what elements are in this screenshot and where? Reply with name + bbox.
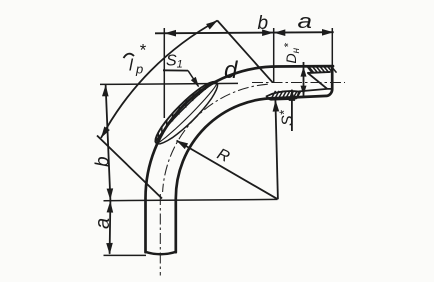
bend end boundary line bbox=[217, 21, 272, 83]
extension line at bend start level bbox=[104, 199, 278, 200]
arrow b top right bbox=[262, 29, 274, 36]
extension line at pipe right end bbox=[331, 28, 333, 66]
bottom wall section hatching bbox=[271, 91, 301, 99]
arrow a left bottom bbox=[106, 243, 113, 255]
S* dimension line below wall bbox=[291, 90, 293, 131]
svg-text:a: a bbox=[298, 11, 313, 33]
arrow Dn bottom bbox=[301, 86, 307, 96]
left dimension line bbox=[106, 85, 111, 254]
arrow Dn top bbox=[301, 67, 307, 77]
centerline of horizontal pipe bbox=[252, 82, 345, 84]
pipe elbow outer contour (outer bend arc, left wall, top edge) bbox=[146, 66, 334, 252]
section S1 crescent hatching bbox=[155, 82, 215, 143]
S1 leader bbox=[188, 71, 199, 87]
arrow S1 bbox=[191, 77, 199, 87]
bend centerline arc bbox=[163, 84, 268, 192]
arrow b top left bbox=[165, 30, 177, 37]
svg-text:d: d bbox=[224, 57, 238, 84]
R dimension line bbox=[177, 141, 278, 200]
extension line at pipe bottom end bbox=[104, 254, 147, 256]
arrow R bbox=[177, 141, 189, 150]
section S1 lens outer edge bbox=[155, 82, 217, 144]
pipe bottom end face bbox=[145, 252, 176, 254]
svg-text:b: b bbox=[258, 13, 269, 34]
arrow at lower end of lp arc bbox=[101, 127, 110, 139]
arrow a left top bbox=[107, 201, 114, 213]
arrow at upper end of lp arc bbox=[206, 21, 217, 30]
extension line at bend end bbox=[273, 28, 275, 82]
radius corner vertical line bbox=[275, 100, 278, 199]
Dn dimension line bbox=[303, 62, 305, 96]
arc-length dimension arc for lp bbox=[101, 21, 218, 139]
top wall section hatching bbox=[309, 66, 337, 72]
svg-text:p: p bbox=[135, 62, 143, 77]
extension line from vertical pipe axis bbox=[163, 28, 165, 118]
arrow b left bottom bbox=[107, 188, 114, 200]
arrow a top right bbox=[322, 29, 334, 36]
centerline of vertical pipe bbox=[159, 194, 161, 276]
section S1 inner (bore) edge bbox=[156, 82, 216, 141]
bottom wall broken-out section (boat) outline bbox=[267, 91, 299, 100]
pipe elbow inner contour (right wall, inner bend arc, bottom edge) bbox=[176, 66, 332, 252]
arrow a top left bbox=[274, 29, 286, 36]
bore inner top edge at right end bbox=[307, 72, 330, 73]
label lp* breve bbox=[124, 54, 135, 58]
arrow S* up bbox=[289, 89, 296, 101]
section S1 lens lower-right edge bbox=[156, 82, 218, 143]
top wall section boundary (left) bbox=[307, 67, 312, 73]
section S1 second inner curve bbox=[157, 83, 217, 143]
S1 underline bbox=[163, 69, 188, 71]
extension line from horizontal pipe axis bbox=[100, 83, 238, 84]
arrow b left top bbox=[102, 85, 109, 97]
weld bevel diagonal across bore bbox=[308, 73, 327, 89]
top dimension line bbox=[155, 32, 334, 33]
bend start boundary line bbox=[97, 136, 162, 199]
svg-text:b: b bbox=[93, 156, 114, 167]
svg-text:a: a bbox=[92, 218, 114, 229]
bore bottom edge at right end bbox=[299, 89, 332, 92]
arrow S* on corner vertical bbox=[273, 100, 280, 112]
